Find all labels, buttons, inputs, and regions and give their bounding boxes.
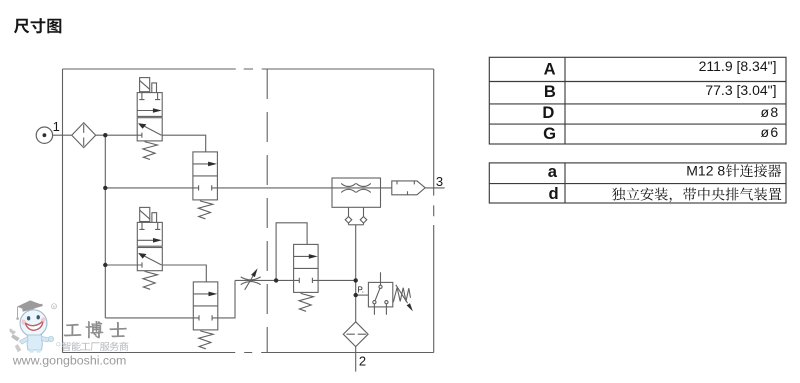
throttle left in block [341, 183, 356, 192]
pilot valve V5 (2/2) [294, 244, 319, 311]
wire through throttle TH1 to V5 [235, 279, 294, 281]
exhaust outlet symbol [392, 181, 425, 195]
title 尺寸图 [14, 18, 61, 33]
frame top border [63, 68, 434, 70]
svg-text:ø8: ø8 [761, 104, 780, 120]
watermark mascot [9, 300, 56, 352]
wire V3 out to V4 top [163, 265, 207, 282]
junction nodes [103, 133, 358, 297]
wire port1 to filter F1 [53, 134, 72, 136]
wire V5 out to main right line [318, 279, 356, 281]
svg-text:M12 8: M12 8 [686, 163, 725, 179]
block drop lines to check valves [349, 207, 364, 225]
wire V1 out to V2 top [162, 135, 206, 152]
option table a/d [489, 163, 786, 203]
solenoid pilot valve V1 (3/2) [137, 78, 162, 160]
watermark 工博士 [64, 321, 127, 338]
collector bar under check valves [349, 224, 364, 226]
pressure switch PS [368, 272, 413, 315]
svg-text:A: A [544, 60, 556, 79]
svg-text:www.gongboshi.com: www.gongboshi.com [12, 354, 127, 368]
flow line V2 to dual throttle block [217, 187, 391, 189]
svg-text:P.: P. [358, 286, 365, 295]
throttle right in block [356, 183, 371, 192]
wire V4 out up to throttle line [218, 280, 235, 318]
wire filter F1 to valve V1 [96, 134, 138, 136]
main left supply line vertical [104, 135, 106, 318]
frame right border [433, 69, 435, 353]
main right line down to filter F2 [355, 225, 357, 322]
wire bottom supply to V4 port [105, 317, 193, 319]
filter F2 diamond [343, 322, 368, 347]
svg-text:211.9 [8.34"]: 211.9 [8.34"] [699, 58, 777, 74]
wire node to V2 bottom port [105, 187, 193, 189]
svg-text:B: B [544, 82, 556, 101]
svg-text:1: 1 [53, 119, 60, 134]
svg-text:a: a [548, 162, 558, 181]
adjustable throttle TH1 [241, 268, 261, 290]
wire node to V3 port [105, 264, 137, 266]
check valve diamond right [360, 217, 367, 224]
svg-text:d: d [548, 184, 558, 203]
svg-text:G: G [543, 124, 556, 143]
check valve diamond left [345, 217, 352, 224]
wire riser node to V5 top loop [276, 223, 307, 281]
pilot valve V4 (2/2) [193, 282, 218, 349]
svg-text:D: D [542, 103, 554, 122]
filter F1 diamond [72, 123, 96, 148]
dimension table A/B/D/G [489, 57, 786, 144]
port 1 symbol [36, 127, 52, 143]
switch spring with arrow [393, 288, 410, 303]
svg-text:2: 2 [359, 354, 366, 369]
dual flow control block [332, 178, 381, 223]
frame bottom border [63, 352, 434, 354]
svg-text:ø6: ø6 [761, 124, 780, 140]
svg-text:77.3 [3.04"]: 77.3 [3.04"] [705, 82, 776, 98]
wire filter F2 to port 2 [355, 347, 357, 372]
value 独立安装，带中央排气装置 [612, 188, 781, 203]
svg-text:R: R [53, 304, 56, 309]
watermark 智能工厂服务商 [62, 342, 129, 351]
svg-text:3: 3 [436, 174, 443, 189]
pilot valve V2 (2/2) [193, 152, 218, 219]
solenoid pilot valve V3 (3/2) [137, 207, 162, 289]
frame center dashed divider [266, 69, 268, 353]
wire node to pressure switch [356, 294, 369, 296]
frame left border [62, 69, 64, 353]
flow line exhaust tip to port 3 [425, 187, 444, 189]
